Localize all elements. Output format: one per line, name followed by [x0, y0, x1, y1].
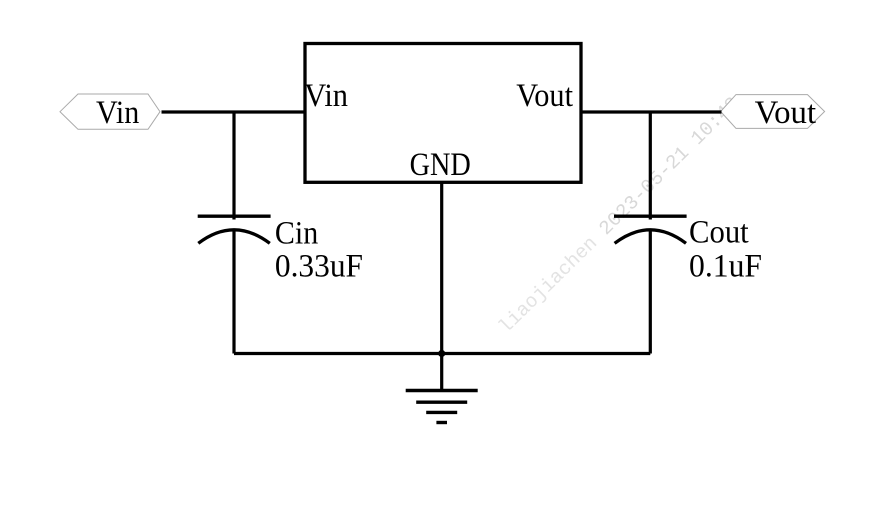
svg-text:Vout: Vout	[516, 78, 573, 114]
ground bar 1	[406, 389, 478, 392]
wire: Cout to bottom rail	[649, 230, 652, 354]
wire: GND pin down to rail	[440, 182, 443, 353]
ground bar 2	[416, 401, 467, 404]
svg-text:0.33uF: 0.33uF	[275, 249, 363, 285]
wire: Cin branch down	[232, 112, 235, 220]
junction dot	[438, 350, 445, 357]
capacitor C2 Cout curved plate	[615, 230, 686, 244]
regulator U1 box	[305, 44, 581, 183]
wire: Cout branch down	[649, 112, 652, 220]
svg-text:Vout: Vout	[755, 95, 816, 131]
wire: bottom rail	[234, 352, 650, 355]
svg-text:0.1uF: 0.1uF	[689, 249, 762, 285]
ground bar 4	[436, 421, 447, 424]
wire: U1 right to Vout port	[581, 110, 722, 113]
wire: Vin port to U1 left	[162, 110, 306, 113]
capacitor C2 Cout top plate	[614, 215, 687, 218]
svg-text:Cin: Cin	[275, 216, 318, 252]
capacitor C1 Cin curved plate	[198, 230, 269, 244]
ground stem	[440, 354, 443, 391]
svg-text:Vin: Vin	[96, 95, 139, 131]
svg-text:Cout: Cout	[689, 215, 749, 251]
port Vout hexagon	[721, 95, 825, 129]
port Vin hexagon	[60, 94, 160, 129]
capacitor C1 Cin top plate	[198, 215, 271, 218]
wire: Cin to bottom rail	[232, 230, 235, 354]
svg-text:GND: GND	[410, 147, 471, 183]
svg-text:Vin: Vin	[304, 78, 348, 114]
ground bar 3	[426, 411, 457, 414]
